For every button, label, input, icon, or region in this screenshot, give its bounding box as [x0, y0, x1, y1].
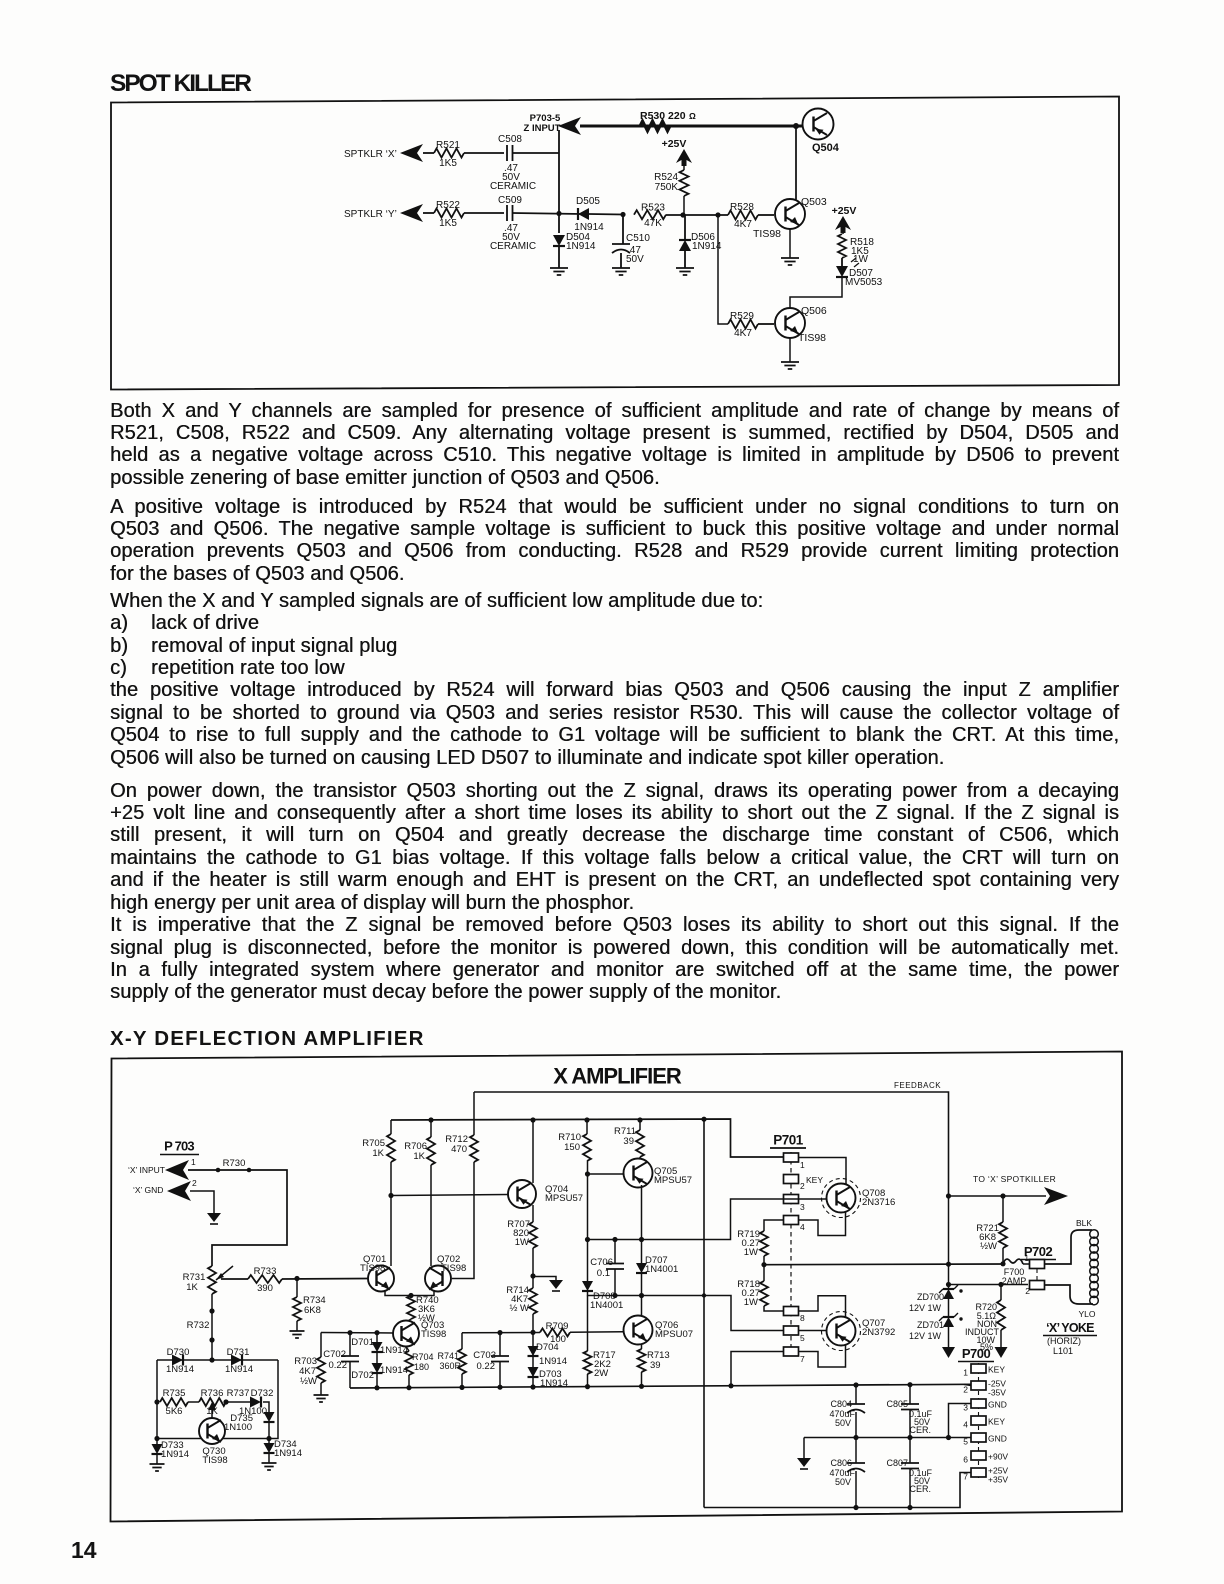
svg-text:2W: 2W — [594, 1368, 608, 1379]
junction R721 — [1000, 1193, 1005, 1198]
resistor R734 6K8 — [296, 1279, 298, 1298]
wire D734 to ground — [268, 1453, 270, 1463]
svg-text:TIS98: TIS98 — [798, 332, 826, 344]
svg-text:1: 1 — [1025, 1254, 1030, 1263]
wire R733 to Q701 base — [282, 1278, 368, 1281]
svg-text:R523: R523 — [641, 203, 665, 214]
junction C807 bottom — [907, 1505, 912, 1510]
heading X-Y DEFLECTION AMPLIFIER — [110, 1027, 425, 1051]
svg-text:BLK: BLK — [1076, 1218, 1092, 1228]
junction D702 — [374, 1385, 379, 1390]
svg-text:R730: R730 — [223, 1158, 246, 1169]
svg-text:2: 2 — [192, 1178, 197, 1188]
ground mid (Q704 emitter divider) — [549, 1280, 563, 1289]
svg-text:1W: 1W — [744, 1247, 758, 1258]
arrow down (to -25V) R720 — [995, 1347, 1008, 1358]
resistor R713 39 — [638, 1349, 646, 1372]
svg-text:1N914: 1N914 — [566, 241, 596, 252]
wire D506 to ground — [684, 251, 686, 268]
wire R718 to pin8 — [764, 1306, 784, 1311]
pin P702-2 — [1030, 1281, 1045, 1290]
svg-text:5: 5 — [800, 1333, 805, 1343]
wire Q701/Q702 emitters — [385, 1291, 434, 1296]
pin P700-5 GND — [971, 1433, 986, 1442]
svg-text:1: 1 — [963, 1368, 968, 1378]
svg-text:+90V: +90V — [988, 1452, 1008, 1462]
junction C805 bottom — [907, 1435, 912, 1440]
svg-text:KEY: KEY — [988, 1365, 1005, 1375]
junction R720 — [998, 1282, 1003, 1287]
resistor R740 3K6 1/2W — [407, 1296, 415, 1320]
svg-text:FEEDBACK: FEEDBACK — [894, 1081, 941, 1090]
page number 14 — [71, 1537, 97, 1564]
svg-text:P701: P701 — [773, 1133, 804, 1148]
diode D504 1N914 — [558, 214, 560, 233]
svg-text:‘X’ INPUT: ‘X’ INPUT — [128, 1165, 165, 1175]
junction Q705 base — [585, 1171, 590, 1176]
svg-text:2: 2 — [800, 1181, 805, 1191]
junction R713 — [639, 1384, 644, 1389]
wire mid ground rail — [804, 1437, 971, 1439]
svg-text:C706: C706 — [590, 1257, 613, 1268]
junction rail/R711 — [637, 1117, 642, 1122]
wire R711 to Q705 collector — [639, 1157, 641, 1159]
wire Q706 collector up — [641, 1296, 643, 1317]
svg-text:470: 470 — [451, 1144, 467, 1155]
svg-text:Z INPUT: Z INPUT — [524, 123, 561, 134]
svg-text:1N914: 1N914 — [166, 1364, 194, 1375]
junction feedback — [946, 1262, 951, 1267]
wire C508 to Z input node — [513, 152, 560, 154]
svg-text:2N3792: 2N3792 — [862, 1327, 895, 1338]
wire D505 to C510 node — [589, 213, 623, 216]
wire R522 to C509 — [464, 212, 504, 214]
pin P701-5 — [784, 1326, 799, 1335]
svg-text:1N914: 1N914 — [274, 1448, 302, 1459]
svg-text:1W: 1W — [744, 1297, 758, 1308]
wire Q730 base pot arrow — [211, 1408, 213, 1418]
svg-text:2: 2 — [963, 1385, 968, 1395]
wire Q503 emitter to ground — [789, 229, 791, 258]
svg-text:5K6: 5K6 — [166, 1406, 183, 1417]
wire R518 to D507 — [841, 258, 843, 266]
svg-text:750K: 750K — [655, 182, 679, 193]
wire Q705 emitter down — [641, 1185, 643, 1240]
resistor R704 180 — [405, 1351, 413, 1375]
svg-text:CERAMIC: CERAMIC — [490, 241, 536, 252]
wire Q708 emitter to pin4 — [798, 1212, 846, 1236]
svg-text:TIS98: TIS98 — [421, 1329, 446, 1340]
wire R720 to -25V arrow — [1000, 1330, 1002, 1347]
svg-text:MPSU57: MPSU57 — [654, 1175, 692, 1186]
wire Q503 collector — [795, 126, 797, 200]
svg-text:Q506: Q506 — [801, 305, 827, 317]
junction R524/D506 — [680, 212, 685, 217]
wire C706/D707 top line — [588, 1199, 785, 1240]
junction R734 — [294, 1276, 299, 1281]
junction rail/+25V feed — [701, 1117, 706, 1122]
svg-text:KEY: KEY — [988, 1417, 1005, 1427]
svg-text:C510: C510 — [626, 233, 650, 244]
heading SPOT KILLER — [110, 70, 250, 98]
wire Q704 collector to rail — [532, 1120, 534, 1183]
wire Q704 base line — [391, 1195, 508, 1196]
svg-text:1N914: 1N914 — [380, 1345, 408, 1356]
svg-text:CER.: CER. — [909, 1484, 931, 1494]
wire C510 to ground — [620, 253, 622, 268]
svg-text:6: 6 — [963, 1455, 968, 1465]
wire Z input thick line — [580, 125, 802, 128]
svg-text:P 703: P 703 — [164, 1139, 194, 1154]
wire Q506 emitter to ground — [789, 338, 791, 362]
resistor R518 1K5 1W — [838, 234, 846, 258]
pin P700-2 -25V/-35V — [971, 1381, 986, 1390]
svg-text:8: 8 — [800, 1313, 805, 1323]
wire yoke top lead — [1045, 1237, 1072, 1264]
svg-text:1N100: 1N100 — [224, 1422, 252, 1433]
wire pin1 to Q708 collector — [798, 1158, 846, 1185]
svg-text:7: 7 — [800, 1354, 805, 1364]
svg-text:-35V: -35V — [988, 1388, 1006, 1398]
junction C703 — [497, 1330, 502, 1335]
wire R709 node line — [462, 1332, 540, 1334]
junction rail/Q704 collector — [530, 1117, 535, 1122]
junction C804 bottom — [853, 1435, 858, 1440]
svg-text:TIS98: TIS98 — [753, 228, 781, 240]
svg-text:D505: D505 — [576, 196, 600, 207]
svg-text:1: 1 — [800, 1160, 805, 1170]
svg-text:ZD701: ZD701 — [917, 1320, 944, 1330]
junction C806 bottom — [853, 1505, 858, 1510]
svg-text:39: 39 — [650, 1360, 661, 1371]
wire pin5 to Q707 base — [798, 1330, 826, 1332]
junction R735 — [154, 1399, 159, 1404]
svg-text:TO ‘X’ SPOTKILLER: TO ‘X’ SPOTKILLER — [973, 1174, 1056, 1184]
junction driver node — [639, 1293, 644, 1298]
svg-text:1K: 1K — [413, 1151, 425, 1162]
junction Q704 base line — [388, 1193, 393, 1198]
junction D707 top — [639, 1237, 644, 1242]
svg-text:C508: C508 — [498, 134, 522, 145]
wire D733 to ground — [156, 1454, 158, 1464]
ground below R734 — [290, 1331, 305, 1338]
wire Z input vertical — [558, 130, 560, 214]
inductor L101 X yoke coil — [1090, 1230, 1099, 1239]
wire Q703 emitter to R704 — [406, 1347, 409, 1352]
wire pin8 to Q707 collector — [798, 1296, 846, 1317]
junction D703 — [530, 1384, 535, 1389]
wire D708 below — [587, 1296, 589, 1351]
svg-text:GND: GND — [988, 1400, 1007, 1410]
svg-text:TIS98: TIS98 — [202, 1455, 227, 1466]
svg-text:MPSU57: MPSU57 — [545, 1193, 583, 1204]
pin P700-7 +25V/+35V — [971, 1468, 986, 1477]
paragraph 1 — [110, 400, 1119, 490]
junction C706 bottom — [612, 1293, 617, 1298]
capacitor C510 .47 50V — [622, 215, 624, 245]
svg-text:1K: 1K — [372, 1148, 384, 1159]
svg-text:1N914: 1N914 — [539, 1356, 567, 1367]
svg-text:1N4001: 1N4001 — [645, 1264, 678, 1275]
svg-text:R736: R736 — [201, 1388, 224, 1399]
wire Q706 emitter to R713 — [641, 1344, 643, 1349]
svg-text:TIS98: TIS98 — [441, 1263, 466, 1274]
schematic frame: X-Y deflection amplifier box — [111, 1052, 1123, 1522]
svg-text:SPTKLR ‘Y’: SPTKLR ‘Y’ — [344, 209, 397, 220]
transistor Q702 TIS98 — [425, 1266, 451, 1292]
junction R719/R718 — [761, 1262, 766, 1267]
junction C702 — [347, 1330, 352, 1335]
svg-text:4: 4 — [800, 1222, 805, 1232]
junction zeners — [946, 1282, 951, 1287]
svg-text:1N914: 1N914 — [161, 1449, 189, 1460]
svg-text:1N914: 1N914 — [574, 222, 604, 233]
svg-text:1K5: 1K5 — [439, 158, 457, 169]
wire Q707 emitter to pin7 — [798, 1345, 846, 1367]
svg-text:C702: C702 — [323, 1349, 346, 1360]
svg-text:1W: 1W — [853, 254, 869, 265]
wire P700 pin2 to rail — [964, 1384, 971, 1385]
transistor Q506 TIS98 — [775, 308, 805, 338]
svg-text:+25V: +25V — [832, 205, 857, 217]
svg-text:4: 4 — [963, 1420, 968, 1430]
wire R529 to Q506 base — [758, 323, 774, 325]
wire 'X' GND to ground — [190, 1191, 214, 1213]
diode D708 1N4001 — [587, 1240, 589, 1282]
svg-text:12V 1W: 12V 1W — [909, 1303, 942, 1313]
wire D504 to ground — [558, 247, 560, 268]
wire R521 to C508 — [464, 152, 504, 154]
pin P701-1 — [784, 1153, 799, 1162]
junction R736/R737 — [223, 1399, 228, 1404]
svg-text:39: 39 — [623, 1136, 634, 1147]
wire D732 to D735 — [263, 1402, 269, 1412]
svg-text:3: 3 — [800, 1202, 805, 1212]
junction C509/D504 — [556, 211, 561, 216]
ground below Q506 — [781, 362, 799, 369]
junction R704 — [406, 1385, 411, 1390]
junction D734 — [266, 1436, 271, 1441]
pin P700-6 +90V — [971, 1451, 986, 1460]
svg-text:GND: GND — [988, 1434, 1007, 1444]
schematic frame: SPOT KILLER box — [111, 97, 1119, 390]
wire R705 to Q701 collector — [390, 1162, 392, 1266]
ground below D504 — [550, 268, 568, 275]
wire Q703 collector line — [321, 1332, 394, 1335]
junction R741 — [459, 1385, 464, 1390]
paragraph 3 with list — [110, 590, 1119, 769]
wire right branch down — [157, 1360, 278, 1439]
wire R734 to ground — [296, 1321, 298, 1331]
transistor Q730 TIS98 — [199, 1418, 225, 1444]
svg-text:MV5053: MV5053 — [845, 277, 883, 288]
svg-text:MPSU07: MPSU07 — [655, 1329, 693, 1340]
junction R528/R529 branch — [715, 212, 720, 217]
svg-text:(HORIZ): (HORIZ) — [1047, 1336, 1081, 1346]
svg-text:‘X’ YOKE: ‘X’ YOKE — [1046, 1321, 1094, 1335]
svg-text:TIS98: TIS98 — [360, 1263, 385, 1274]
ground below D734 — [262, 1463, 277, 1470]
svg-text:L101: L101 — [1053, 1346, 1073, 1356]
svg-text:D730: D730 — [167, 1347, 190, 1358]
pin P702-1 — [1023, 1263, 1030, 1265]
wire yoke bottom lead — [1045, 1285, 1071, 1296]
pin P701-3 — [784, 1195, 799, 1204]
svg-text:C509: C509 — [498, 195, 522, 206]
ground below R703 — [314, 1395, 329, 1402]
svg-text:360R: 360R — [439, 1361, 461, 1371]
ground below D506 — [676, 268, 694, 275]
ground P703 pin 2 — [207, 1213, 221, 1222]
svg-text:180: 180 — [414, 1362, 429, 1372]
pin P701-7 — [784, 1347, 799, 1356]
svg-text:Q503: Q503 — [801, 196, 827, 208]
svg-text:SPTKLR ‘X’: SPTKLR ‘X’ — [344, 149, 397, 160]
transistor Q503 TIS98 — [775, 199, 805, 229]
junction R732 bottom — [209, 1357, 214, 1362]
wire P701 pin7 drop to -25V rail — [731, 1352, 784, 1386]
wire pin3 to Q708 base — [798, 1198, 826, 1200]
wire R712 to Q702 base — [452, 1162, 474, 1279]
svg-text:R741: R741 — [437, 1351, 459, 1361]
svg-text:CERAMIC: CERAMIC — [490, 181, 536, 192]
svg-text:P700: P700 — [962, 1346, 991, 1361]
junction R717 — [585, 1384, 590, 1389]
svg-text:47K: 47K — [644, 218, 662, 229]
wire R529 branch vertical — [718, 215, 728, 324]
transistor Q504 — [803, 109, 834, 140]
svg-text:Ω: Ω — [689, 111, 696, 121]
junction C805 — [907, 1382, 912, 1387]
svg-text:Q504: Q504 — [812, 142, 840, 154]
paragraph 2 — [110, 496, 1119, 586]
diode D703 1N914 — [528, 1367, 539, 1377]
svg-text:1N4001: 1N4001 — [590, 1300, 623, 1311]
junction C703 — [497, 1385, 502, 1390]
wire C509 to node — [513, 213, 583, 214]
junction R709 line — [530, 1330, 535, 1335]
wire R528 to Q503 base — [758, 214, 774, 216]
ground below D733 — [150, 1464, 165, 1471]
svg-text:R709: R709 — [546, 1321, 569, 1332]
wire +25V top rail — [391, 1119, 784, 1157]
ground arrow mid rail — [803, 1438, 805, 1459]
transistor Q701 TIS98 — [368, 1266, 394, 1292]
pin P700-1 KEY — [971, 1364, 986, 1373]
svg-text:100: 100 — [550, 1334, 566, 1345]
resistor R717 2K2 2W — [587, 1350, 589, 1351]
svg-text:12V 1W: 12V 1W — [909, 1331, 942, 1341]
pin P700-3 GND — [971, 1399, 986, 1408]
wire D507 to Q506 collector — [790, 278, 842, 309]
wire feedback column — [948, 1196, 950, 1285]
wire bottom +25V feed rail — [704, 1473, 971, 1508]
wire output node line (to P701 pin5) — [588, 1291, 785, 1331]
wire R707 to R714 — [532, 1248, 534, 1288]
svg-text:R735: R735 — [163, 1388, 186, 1399]
ground below C510 — [612, 268, 630, 275]
svg-text:6K8: 6K8 — [304, 1305, 321, 1316]
svg-text:1W: 1W — [515, 1237, 529, 1248]
junction D701 — [374, 1330, 379, 1335]
svg-text:50V: 50V — [835, 1477, 851, 1487]
svg-text:ZD700: ZD700 — [917, 1292, 944, 1302]
svg-text:1N914: 1N914 — [380, 1365, 408, 1376]
junction P701 pin7 drop — [728, 1383, 733, 1388]
svg-text:½W: ½W — [980, 1241, 997, 1252]
svg-text:50V: 50V — [835, 1418, 851, 1428]
junction C804 — [853, 1382, 858, 1387]
svg-text:R737: R737 — [227, 1388, 250, 1399]
wire X output rail — [764, 1263, 1005, 1266]
svg-text:1N914: 1N914 — [225, 1364, 253, 1375]
wire P701 pin3 drop to C706 line — [784, 1198, 798, 1200]
fuse F700 2AMP — [1003, 1259, 1023, 1264]
svg-text:‘X’ GND: ‘X’ GND — [133, 1185, 163, 1195]
junction R740 — [408, 1293, 413, 1298]
pin P701-8 — [784, 1307, 799, 1316]
svg-text:1K: 1K — [186, 1282, 198, 1293]
wire D730/D731 line — [157, 1359, 278, 1361]
wire P702 pin2 to zener node — [949, 1284, 1029, 1286]
wire R731 to R732 — [211, 1294, 213, 1360]
paragraph 5 — [110, 914, 1119, 1004]
pin P700-4 KEY — [971, 1416, 986, 1425]
paragraph 4 — [110, 780, 1119, 914]
junction pin3 drop — [946, 1435, 951, 1440]
wire P701 pin7 feed — [703, 1119, 705, 1507]
transistor Q703 TIS98 — [393, 1321, 419, 1347]
wire P700 pin3 to ground rail — [949, 1404, 972, 1438]
svg-text:1: 1 — [191, 1157, 196, 1167]
wire node to R528 — [683, 214, 728, 216]
junction C706 top — [612, 1237, 617, 1242]
pin P701-2 KEY — [784, 1175, 799, 1184]
junction rail/R710 — [584, 1117, 589, 1122]
wire zener chain to -25V arrow — [948, 1327, 950, 1347]
svg-text:KEY: KEY — [806, 1175, 823, 1185]
svg-text:R732: R732 — [187, 1320, 210, 1331]
junction ground branch — [530, 1273, 535, 1278]
pin P701-4 — [784, 1216, 799, 1225]
svg-text:4K7: 4K7 — [734, 219, 752, 230]
wire 'X' INPUT (R730 link) — [188, 1170, 287, 1266]
wire left branch down — [156, 1360, 158, 1444]
svg-text:150: 150 — [564, 1142, 580, 1153]
svg-text:½ W: ½ W — [509, 1303, 529, 1314]
svg-text:0.22: 0.22 — [477, 1361, 496, 1372]
wire Q503 collector to Z line — [793, 123, 799, 129]
svg-text:R704: R704 — [412, 1352, 434, 1362]
junction C706 line start — [585, 1237, 590, 1242]
svg-text:1K5: 1K5 — [439, 218, 457, 229]
svg-text:D731: D731 — [227, 1347, 250, 1358]
junction C510 — [620, 212, 625, 217]
junction bottom row left — [154, 1436, 159, 1441]
wire R706 to Q702 collector — [430, 1165, 432, 1266]
resistor R720 5.1 ohm NON INDUCT 10W 5% — [1000, 1285, 1002, 1301]
wire Q705 base line — [588, 1173, 624, 1175]
diode D506 1N914 — [684, 215, 686, 240]
resistor R523 47K — [634, 210, 666, 219]
svg-text:390: 390 — [257, 1283, 273, 1294]
arrow down (to -25V) zener chain — [942, 1347, 955, 1358]
ground below Q503 — [781, 258, 799, 265]
svg-text:+25V: +25V — [662, 138, 687, 150]
svg-text:2: 2 — [1025, 1286, 1030, 1296]
svg-text:X AMPLIFIER: X AMPLIFIER — [553, 1064, 682, 1089]
wire -25V bottom rail — [350, 1384, 971, 1388]
